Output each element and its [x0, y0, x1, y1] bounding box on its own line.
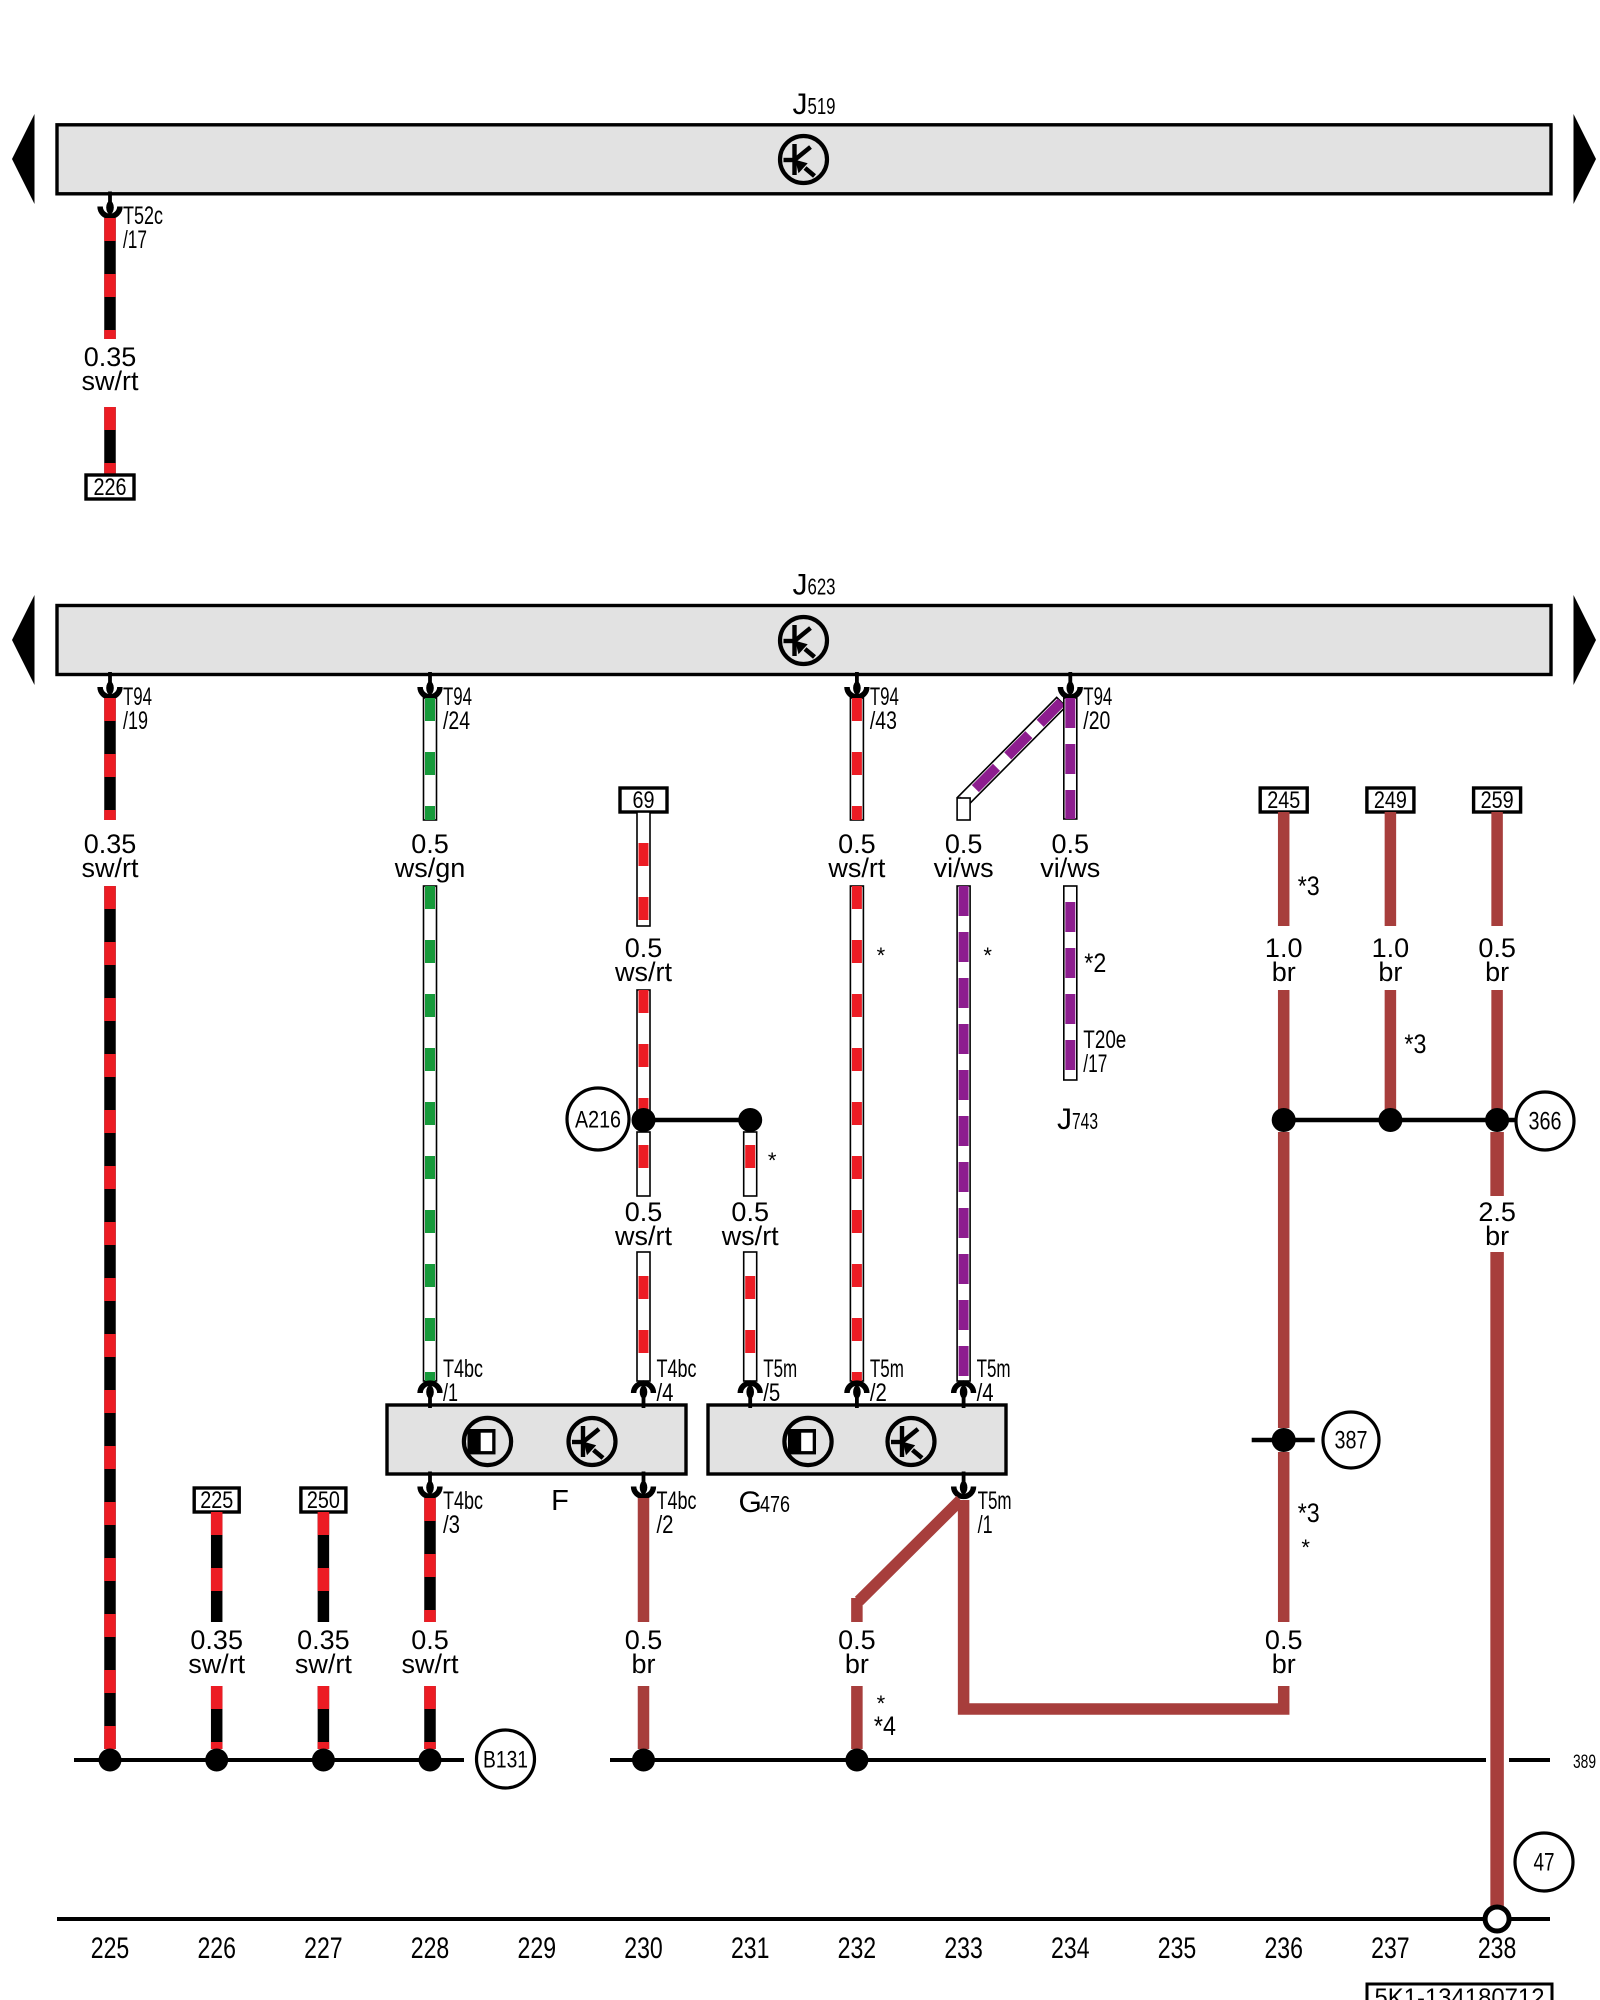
svg-text:br: br	[631, 1649, 655, 1679]
svg-text:br: br	[1378, 957, 1402, 987]
value label 0.5 sw/rt (col 228)	[402, 1625, 459, 1679]
connector T4bc/3 on F	[420, 1472, 440, 1497]
svg-text:/3: /3	[443, 1511, 460, 1539]
svg-text:519: 519	[808, 93, 836, 119]
data bus icon in J623	[780, 617, 827, 664]
footnote asterisk (col 232 lower)	[877, 1691, 886, 1716]
svg-text:237: 237	[1371, 1932, 1410, 1965]
wire 0.35 sw/rt long segment to ground B131	[104, 886, 116, 1749]
value label 0.5 ws/rt (col 230 lower)	[614, 1197, 672, 1251]
terminal box 69	[620, 787, 667, 814]
svg-text:229: 229	[518, 1932, 557, 1965]
connector T4bc/4 on F	[634, 1383, 654, 1408]
svg-text:ws/rt: ws/rt	[614, 957, 672, 987]
svg-text:/1: /1	[443, 1379, 458, 1407]
data bus icon in F	[569, 1418, 616, 1465]
control unit J623 label	[793, 569, 836, 602]
pin label T94/19	[123, 683, 152, 735]
wire 0.5 vi/ws long segment to T5m/4	[957, 886, 970, 1381]
pin label T5m/2	[870, 1355, 904, 1407]
svg-text:ws/gn: ws/gn	[394, 853, 466, 883]
terminal box 249	[1367, 787, 1414, 814]
junction wire between A216 nodes	[644, 1118, 751, 1123]
junction wire of node 387	[1252, 1438, 1315, 1443]
node 366 circle	[1516, 1092, 1574, 1150]
wire 0.5 vi/ws stub to T20e/17	[1064, 886, 1077, 1080]
wire 0.5 br from T4bc/2 (upper segment)	[638, 1498, 650, 1622]
svg-text:br: br	[1272, 1649, 1296, 1679]
svg-text:227: 227	[304, 1932, 343, 1965]
svg-text:226: 226	[94, 474, 127, 501]
svg-text:5K1-134180712: 5K1-134180712	[1375, 1984, 1545, 2000]
footnote asterisk 3 (col 236 upper)	[1298, 871, 1320, 901]
footnote asterisk (col 231)	[768, 1148, 777, 1173]
wire 2.5 br long segment to terminal 47	[1490, 1252, 1504, 1907]
wire 0.5 br elbow to T5m/1	[964, 1500, 1284, 1709]
wire 0.5 ws/gn from T94/24 (upper segment)	[424, 698, 437, 820]
svg-text:ws/rt: ws/rt	[614, 1221, 672, 1251]
value label 0.5 ws/gn	[394, 829, 466, 883]
junction dot A216 left	[632, 1108, 656, 1132]
control unit J743 label	[1057, 1103, 1098, 1136]
svg-text:/4: /4	[977, 1379, 994, 1407]
svg-text:/2: /2	[870, 1379, 887, 1407]
wire 0.5 br to ground 389 (col 232)	[851, 1686, 863, 1749]
current track numbers 225-238	[91, 1932, 1517, 1965]
svg-text:*: *	[1301, 1535, 1310, 1560]
svg-text:B131: B131	[483, 1747, 528, 1774]
terminal box 226	[86, 474, 134, 501]
pin label T52c/17	[123, 202, 163, 254]
fuel gauge sender 2 G476 box	[708, 1405, 1006, 1474]
svg-text:/4: /4	[657, 1379, 674, 1407]
wire 1.0 br to junction 366 (col 237)	[1385, 990, 1397, 1120]
wire 0.5 sw/rt from T4bc/3 to ground (lower segment)	[424, 1686, 436, 1749]
svg-text:/43: /43	[870, 707, 897, 735]
wire 0.35 sw/rt from T52c/17 (upper segment)	[104, 218, 116, 339]
ground label 389	[1573, 1752, 1596, 1773]
pin label T94/43	[870, 683, 899, 735]
svg-text:vi/ws: vi/ws	[934, 853, 994, 883]
junction dot 366 col237	[1378, 1108, 1402, 1132]
svg-text:232: 232	[838, 1932, 877, 1965]
terminal box 259	[1474, 787, 1521, 814]
terminal box 245	[1260, 787, 1307, 814]
connector T5m/4 on G476	[954, 1383, 974, 1408]
wire 0.5 br below node 387	[1278, 1452, 1290, 1622]
svg-text:235: 235	[1158, 1932, 1197, 1965]
wire 0.5 ws/rt to junction A216	[637, 990, 650, 1120]
wire 0.5 br to junction 366 (col 238)	[1491, 990, 1503, 1120]
control unit J519 bus bar	[57, 125, 1551, 194]
junction dot 366 col238	[1485, 1108, 1509, 1132]
pin label T94/24	[443, 683, 472, 735]
svg-text:A216: A216	[575, 1107, 621, 1134]
data bus icon in J519	[780, 136, 827, 183]
value label 0.5 br (col 238)	[1478, 933, 1516, 987]
svg-text:*: *	[983, 943, 992, 968]
svg-text:228: 228	[411, 1932, 450, 1965]
svg-text:sw/rt: sw/rt	[295, 1649, 352, 1679]
svg-text:vi/ws: vi/ws	[1040, 853, 1100, 883]
svg-text:/19: /19	[123, 707, 148, 735]
junction dot on ground 389 (col 230)	[632, 1749, 655, 1772]
svg-text:J: J	[793, 569, 808, 602]
wire 2.5 br from junction 366 (upper segment)	[1490, 1132, 1504, 1196]
svg-text:245: 245	[1267, 787, 1300, 814]
wire 0.35 sw/rt to terminal 226 (lower segment)	[104, 407, 116, 474]
terminal box 250	[301, 1487, 346, 1514]
wire 0.35 sw/rt below terminal 250 (lower segment)	[318, 1686, 330, 1749]
junction dot on B131 (col 227)	[312, 1749, 335, 1772]
bus continuation arrow right of J519	[1574, 114, 1597, 204]
value label 1.0 br (col 236)	[1265, 933, 1303, 987]
svg-text:ws/rt: ws/rt	[721, 1221, 779, 1251]
wire 0.35 sw/rt below terminal 225 (upper segment)	[211, 1512, 223, 1622]
wire 0.5 ws/rt below junction (col 231)	[744, 1132, 757, 1196]
footnote asterisk 3 (col 237)	[1404, 1029, 1426, 1059]
svg-text:259: 259	[1481, 787, 1514, 814]
sensor icon in F	[464, 1418, 511, 1465]
wire 0.5 vi/ws from T94/20 (upper segment)	[1064, 698, 1077, 819]
junction dot 366 col236	[1272, 1108, 1296, 1132]
svg-text:*3: *3	[1298, 871, 1320, 901]
node A216 circle	[567, 1088, 629, 1150]
svg-text:*: *	[768, 1148, 777, 1173]
wire 0.5 ws/rt long segment to T5m/2	[850, 886, 863, 1381]
footnote asterisk (col 233)	[983, 943, 992, 968]
svg-text:sw/rt: sw/rt	[402, 1649, 459, 1679]
svg-text:/17: /17	[1083, 1050, 1107, 1078]
connector T5m/5 on G476	[740, 1383, 760, 1408]
value label 0.35 sw/rt (col 226)	[188, 1625, 245, 1679]
svg-text:476: 476	[760, 1491, 790, 1517]
value label 0.5 br (col 232)	[838, 1625, 876, 1679]
wire 1.0 br to junction 366 (col 236)	[1278, 990, 1290, 1120]
svg-text:/2: /2	[657, 1511, 674, 1539]
svg-text:233: 233	[944, 1932, 983, 1965]
footnote asterisk 3 (col 236 lower)	[1298, 1498, 1320, 1528]
junction dot on B131 (col 228)	[419, 1749, 442, 1772]
connector T5m/2 on G476	[847, 1383, 867, 1408]
svg-text:*2: *2	[1084, 948, 1106, 978]
current track line	[57, 1917, 1550, 1921]
connector T94/20 on J623	[1060, 672, 1080, 697]
footnote asterisk 4 (col 232)	[874, 1711, 896, 1741]
wire 0.35 sw/rt below terminal 250 (upper segment)	[318, 1512, 330, 1622]
svg-text:226: 226	[197, 1932, 236, 1965]
value label 0.5 ws/rt (col 230 upper)	[614, 933, 672, 987]
svg-text:225: 225	[200, 1487, 233, 1514]
svg-text:br: br	[1485, 1221, 1509, 1251]
wire 0.5 sw/rt from T4bc/3 (upper segment)	[424, 1498, 436, 1622]
data bus icon in G476	[888, 1418, 935, 1465]
wire 0.5 ws/gn long segment to T4bc/1	[424, 886, 437, 1381]
ground wire 389 (right part)	[1509, 1758, 1550, 1762]
pin label T4bc/3	[443, 1487, 483, 1539]
svg-text:387: 387	[1335, 1427, 1368, 1455]
svg-text:/17: /17	[123, 226, 147, 254]
svg-text:366: 366	[1529, 1108, 1562, 1136]
value label 2.5 br	[1478, 1197, 1516, 1251]
svg-text:/5: /5	[763, 1379, 780, 1407]
fuel gauge sender F box	[387, 1405, 686, 1474]
junction dot on B131 (col 225)	[99, 1749, 122, 1772]
svg-text:sw/rt: sw/rt	[82, 853, 139, 883]
value label 1.0 br (col 237)	[1372, 933, 1410, 987]
svg-text:br: br	[1485, 957, 1509, 987]
svg-text:236: 236	[1264, 1932, 1303, 1965]
junction dot 387	[1272, 1428, 1296, 1452]
value label 0.35 sw/rt (col 225)	[82, 829, 139, 883]
svg-text:br: br	[845, 1649, 869, 1679]
svg-text:*4: *4	[874, 1711, 896, 1741]
svg-text:G: G	[739, 1486, 762, 1519]
svg-text:225: 225	[91, 1932, 130, 1965]
bus continuation arrow left of J519	[12, 114, 35, 204]
wire 1.0 br below terminal 249	[1385, 812, 1397, 926]
ground connection B131 circle	[477, 1730, 535, 1788]
node 47 circle	[1515, 1833, 1573, 1891]
pin label T20e/17	[1083, 1026, 1126, 1078]
footnote asterisk 2 (col 234)	[1084, 948, 1106, 978]
connector T4bc/2 on F	[634, 1472, 654, 1497]
junction dot on ground 389 (col 232)	[845, 1749, 868, 1772]
diagram id box 5K1-134180712	[1367, 1984, 1552, 2000]
pin label T94/20	[1083, 683, 1112, 735]
control unit J623 bus bar	[57, 606, 1551, 675]
node 387 circle	[1323, 1412, 1379, 1468]
value label 0.5 vi/ws (col 233)	[934, 829, 994, 883]
terminal box 225	[194, 1487, 239, 1514]
wire 0.5 ws/rt below junction (col 230)	[637, 1132, 650, 1196]
pin label T5m/4	[977, 1355, 1011, 1407]
component label G476	[739, 1486, 791, 1519]
svg-text:743: 743	[1072, 1108, 1098, 1134]
wire 0.5 br below terminal 259	[1491, 812, 1503, 926]
svg-text:234: 234	[1051, 1932, 1090, 1965]
sensor icon in G476	[784, 1418, 831, 1465]
value label 0.35 sw/rt	[82, 342, 139, 396]
bus continuation arrow right of J623	[1574, 595, 1597, 685]
svg-text:J: J	[793, 88, 808, 121]
footnote asterisk (col 232)	[877, 943, 886, 968]
svg-text:F: F	[551, 1485, 569, 1517]
connector T94/24 on J623	[420, 672, 440, 697]
junction dot A216 right	[738, 1108, 762, 1132]
wire 1.0 br below terminal 245	[1278, 812, 1290, 926]
ground wire 389 (left part)	[610, 1758, 1486, 1762]
wire 0.5 ws/rt below terminal 69	[637, 812, 650, 926]
svg-text:69: 69	[633, 787, 655, 814]
wire 0.5 ws/rt to T5m/5	[744, 1252, 757, 1381]
value label 0.5 ws/rt (col 231)	[721, 1197, 779, 1251]
wire 0.35 sw/rt below terminal 225 (lower segment)	[211, 1686, 223, 1749]
junction wire of node 366	[1284, 1118, 1516, 1123]
svg-text:47: 47	[1534, 1849, 1555, 1877]
footnote asterisk (col 236 lower)	[1301, 1535, 1310, 1560]
svg-text:623: 623	[808, 574, 836, 600]
wire 0.35 sw/rt from T94/19 (upper segment)	[104, 698, 116, 820]
svg-text:sw/rt: sw/rt	[82, 366, 139, 396]
pin label T4bc/1	[443, 1355, 483, 1407]
value label 0.35 sw/rt (col 227)	[295, 1625, 352, 1679]
svg-text:250: 250	[307, 1487, 340, 1514]
svg-text:238: 238	[1478, 1932, 1517, 1965]
value label 0.5 ws/rt (col 232)	[827, 829, 885, 883]
svg-text:*3: *3	[1298, 1498, 1320, 1528]
svg-text:*3: *3	[1404, 1029, 1426, 1059]
connector T4bc/1 on F	[420, 1383, 440, 1408]
svg-text:*: *	[877, 943, 886, 968]
bus continuation arrow left of J623	[12, 595, 35, 685]
wire 0.5 ws/rt from T94/43 (upper segment)	[850, 698, 863, 820]
control unit J519 label	[793, 88, 836, 121]
svg-text:231: 231	[731, 1932, 770, 1965]
wire 1.0 br from junction 366 to node 387	[1278, 1132, 1290, 1428]
svg-text:/1: /1	[978, 1511, 993, 1539]
value label 0.5 br (col 236 lower)	[1265, 1625, 1303, 1679]
pin label T5m/5	[763, 1355, 797, 1407]
value label 0.5 br (col 230)	[625, 1625, 663, 1679]
svg-text:249: 249	[1374, 787, 1407, 814]
connector T52c/17 on J519	[100, 192, 120, 217]
svg-text:ws/rt: ws/rt	[827, 853, 885, 883]
svg-text:/20: /20	[1083, 707, 1110, 735]
connector T94/43 on J623	[847, 672, 867, 697]
wire 0.5 br from T4bc/2 to ground (lower segment)	[638, 1686, 650, 1749]
component label F	[551, 1485, 569, 1517]
wire 0.5 vi/ws diagonal branch from T94/20	[957, 697, 1066, 820]
pin label T4bc/2	[657, 1487, 697, 1539]
value label 0.5 vi/ws (col 234)	[1040, 829, 1100, 883]
wire 0.5 br diagonal branch from T5m/1	[857, 1500, 961, 1622]
svg-text:/24: /24	[443, 707, 470, 735]
junction dot on B131 (col 226)	[205, 1749, 228, 1772]
svg-text:230: 230	[624, 1932, 663, 1965]
svg-text:sw/rt: sw/rt	[188, 1649, 245, 1679]
connector T5m/1 on G476	[954, 1472, 974, 1497]
terminal 47 open circle on track line	[1485, 1907, 1509, 1931]
svg-text:J: J	[1057, 1103, 1072, 1136]
svg-text:br: br	[1272, 957, 1296, 987]
ground wire B131	[74, 1758, 464, 1762]
connector T94/19 on J623	[100, 672, 120, 697]
pin label T5m/1	[978, 1487, 1012, 1539]
pin label T4bc/4	[657, 1355, 697, 1407]
svg-text:389: 389	[1573, 1752, 1596, 1773]
wire 0.5 ws/rt to T4bc/4	[637, 1252, 650, 1381]
